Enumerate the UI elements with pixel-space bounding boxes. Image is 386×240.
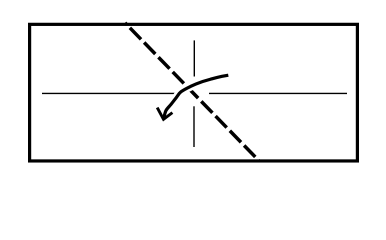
crease line vertical bottom segment <box>193 106 195 147</box>
valley fold dashed diagonal <box>125 23 259 161</box>
crease line horizontal left segment <box>42 92 178 94</box>
arrowhead open V <box>157 108 172 120</box>
crease line horizontal right segment <box>209 92 347 94</box>
fold arrow shaft <box>164 75 229 119</box>
paper rectangle border <box>30 24 358 161</box>
crease line vertical top segment <box>193 40 195 76</box>
fold arrow white casing <box>164 75 229 119</box>
